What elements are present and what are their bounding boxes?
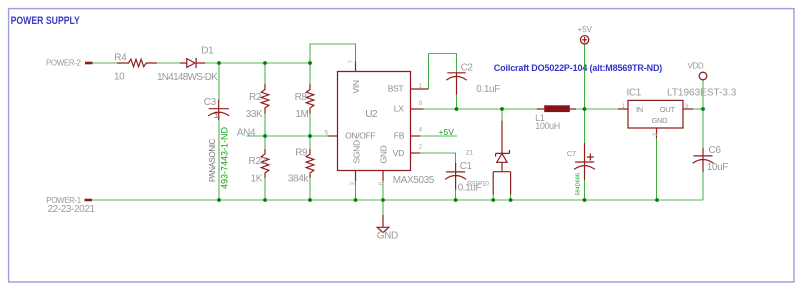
- IC1 pin 3 stub: [683, 108, 693, 110]
- IC1 box: [628, 100, 683, 128]
- U2 pin 8 LX stub: [411, 108, 424, 110]
- svg-text:ON/OFF: ON/OFF: [345, 131, 375, 141]
- U2 pin 3 stub: [355, 171, 357, 182]
- IC1 pin 2 stub: [656, 128, 658, 138]
- supply VDD symbol: [699, 72, 707, 80]
- wire VD to C1: [420, 153, 456, 163]
- POWER-2 pin stub: [85, 62, 93, 65]
- U2 pin 1 BST stub: [411, 88, 429, 90]
- svg-text:8: 8: [419, 100, 423, 107]
- svg-text:LT1963EST-3.3: LT1963EST-3.3: [667, 88, 737, 99]
- POWER-1 pin stub: [85, 199, 93, 202]
- wire L1 to IC1 pin1: [576, 108, 618, 110]
- diode Z1 SS1P10: [493, 121, 510, 195]
- svg-text:R23: R23: [249, 156, 267, 167]
- svg-text:493-7443-1-ND: 493-7443-1-ND: [219, 126, 229, 189]
- wire U2 pin3 pin6 to rail: [356, 181, 384, 200]
- svg-text:D1: D1: [201, 46, 214, 57]
- wire +5V supply down through LX to C7: [584, 44, 586, 143]
- text labels layer: [46, 24, 737, 242]
- svg-text:384k: 384k: [288, 174, 309, 185]
- wire C3 bottom branch: [218, 120, 220, 200]
- wire LX rail to L1: [424, 108, 537, 110]
- wire rail to GND symbol: [382, 200, 384, 215]
- svg-text:R8: R8: [295, 92, 308, 103]
- U2 pin 7 stub: [355, 62, 357, 72]
- svg-text:IC1: IC1: [627, 88, 642, 99]
- wire R2 column: [264, 63, 266, 200]
- wire C7 bottom to ground rail: [584, 180, 586, 200]
- svg-text:POWER-2: POWER-2: [46, 59, 81, 68]
- svg-text:C2: C2: [461, 62, 474, 73]
- ground symbol: [377, 215, 389, 233]
- svg-text:Z1: Z1: [466, 149, 474, 156]
- wire R8 R9 column: [309, 63, 311, 200]
- diode D1: [180, 58, 205, 68]
- wire VDD down to pin3 node and C6: [702, 80, 704, 148]
- svg-text:0.1uF: 0.1uF: [476, 84, 500, 95]
- wire D1 to R8 top node: [205, 62, 310, 64]
- svg-text:33K: 33K: [246, 109, 263, 120]
- svg-text:R4: R4: [114, 52, 127, 63]
- wire IC1 pin2 to rail: [656, 138, 658, 200]
- svg-text:MAX5035: MAX5035: [393, 175, 435, 186]
- svg-text:R9: R9: [295, 148, 308, 159]
- svg-text:C6: C6: [709, 145, 722, 156]
- svg-text:7: 7: [348, 60, 355, 64]
- svg-text:22-23-2021: 22-23-2021: [48, 204, 96, 215]
- wire R4 to D1: [157, 62, 180, 64]
- svg-text:0.1uF: 0.1uF: [458, 183, 482, 194]
- supply +5V symbol: [580, 36, 588, 44]
- wire C1 bottom to rail: [455, 190, 457, 200]
- capacitor C6: [693, 148, 714, 172]
- resistor R2: [261, 84, 269, 114]
- IC1 pin 1 stub: [618, 108, 628, 110]
- svg-text:Coilcraft DO5022P-104 (alt:M8: Coilcraft DO5022P-104 (alt:M8569TR-ND): [494, 63, 663, 73]
- inductor L1: [537, 108, 576, 110]
- svg-text:100uH: 100uH: [535, 121, 560, 131]
- svg-text:10: 10: [114, 72, 125, 83]
- capacitor C3: [208, 100, 229, 121]
- wire C2 bottom to LX rail: [456, 95, 458, 109]
- svg-text:2: 2: [652, 132, 659, 136]
- svg-text:+5V: +5V: [577, 24, 592, 34]
- svg-text:FB: FB: [394, 131, 405, 141]
- wire BST to C2 top: [429, 54, 457, 90]
- svg-text:POWER SUPPLY: POWER SUPPLY: [11, 15, 80, 27]
- svg-text:VDD: VDD: [688, 62, 704, 71]
- svg-text:OUT: OUT: [660, 105, 676, 114]
- wire FB to +5V label: [420, 135, 457, 137]
- resistor R4: [117, 59, 157, 67]
- svg-text:1K: 1K: [251, 174, 263, 185]
- svg-text:594D686: 594D686: [575, 173, 581, 195]
- svg-text:C7: C7: [567, 149, 576, 158]
- svg-text:BST: BST: [388, 84, 404, 94]
- svg-text:SGND: SGND: [351, 140, 361, 164]
- U2 pin 6 stub: [382, 171, 384, 182]
- op-amp U2 box: [338, 72, 411, 171]
- svg-text:PANASONIC: PANASONIC: [208, 138, 217, 182]
- U2 pin 2 VD stub: [411, 152, 421, 154]
- svg-text:H: H: [213, 113, 222, 119]
- svg-text:GND: GND: [377, 230, 398, 241]
- svg-text:+5V: +5V: [439, 127, 455, 137]
- wire C3 top branch: [218, 63, 220, 100]
- svg-text:2: 2: [419, 143, 423, 150]
- capacitor C1: [445, 163, 466, 190]
- svg-text:10uF: 10uF: [707, 162, 728, 173]
- svg-text:GND: GND: [378, 145, 388, 163]
- junction dots: [217, 61, 221, 65]
- svg-text:1M: 1M: [295, 109, 308, 120]
- svg-text:C3: C3: [204, 97, 217, 108]
- svg-text:IN: IN: [636, 105, 643, 114]
- svg-text:R2: R2: [249, 92, 262, 103]
- resistor R9: [306, 149, 314, 178]
- wire AN4 node to ON/OFF pin5: [247, 135, 328, 137]
- wire C6 bottom to rail corner: [702, 172, 704, 200]
- svg-text:C1: C1: [460, 161, 473, 172]
- U2 pin 4 FB stub: [411, 135, 421, 137]
- U2 pin 5 ON/OFF stub: [328, 135, 338, 137]
- wire LX node to Z1 cathode: [501, 109, 503, 121]
- svg-text:GND: GND: [652, 116, 669, 125]
- wire riser to VIN pin7: [310, 44, 356, 63]
- svg-text:1N4148WS-DK: 1N4148WS-DK: [157, 72, 218, 83]
- wire bottom ground rail: [92, 199, 703, 201]
- resistor R8: [306, 84, 314, 114]
- svg-text:LX: LX: [394, 104, 404, 114]
- svg-text:5: 5: [325, 129, 329, 136]
- svg-text:4: 4: [419, 127, 423, 134]
- wire Z1 legs to rail: [493, 194, 510, 200]
- wire top rail POWER-2 to R4: [93, 62, 118, 64]
- svg-text:VIN: VIN: [351, 80, 361, 93]
- svg-text:VD: VD: [393, 148, 404, 158]
- capacitor C7: [574, 143, 595, 180]
- svg-text:6: 6: [378, 182, 385, 186]
- capacitor C2: [446, 73, 466, 95]
- svg-text:AN4: AN4: [237, 128, 256, 139]
- svg-text:U2: U2: [365, 109, 378, 120]
- resistor R23: [261, 149, 269, 178]
- wire IC1 pin3 to node: [693, 108, 703, 110]
